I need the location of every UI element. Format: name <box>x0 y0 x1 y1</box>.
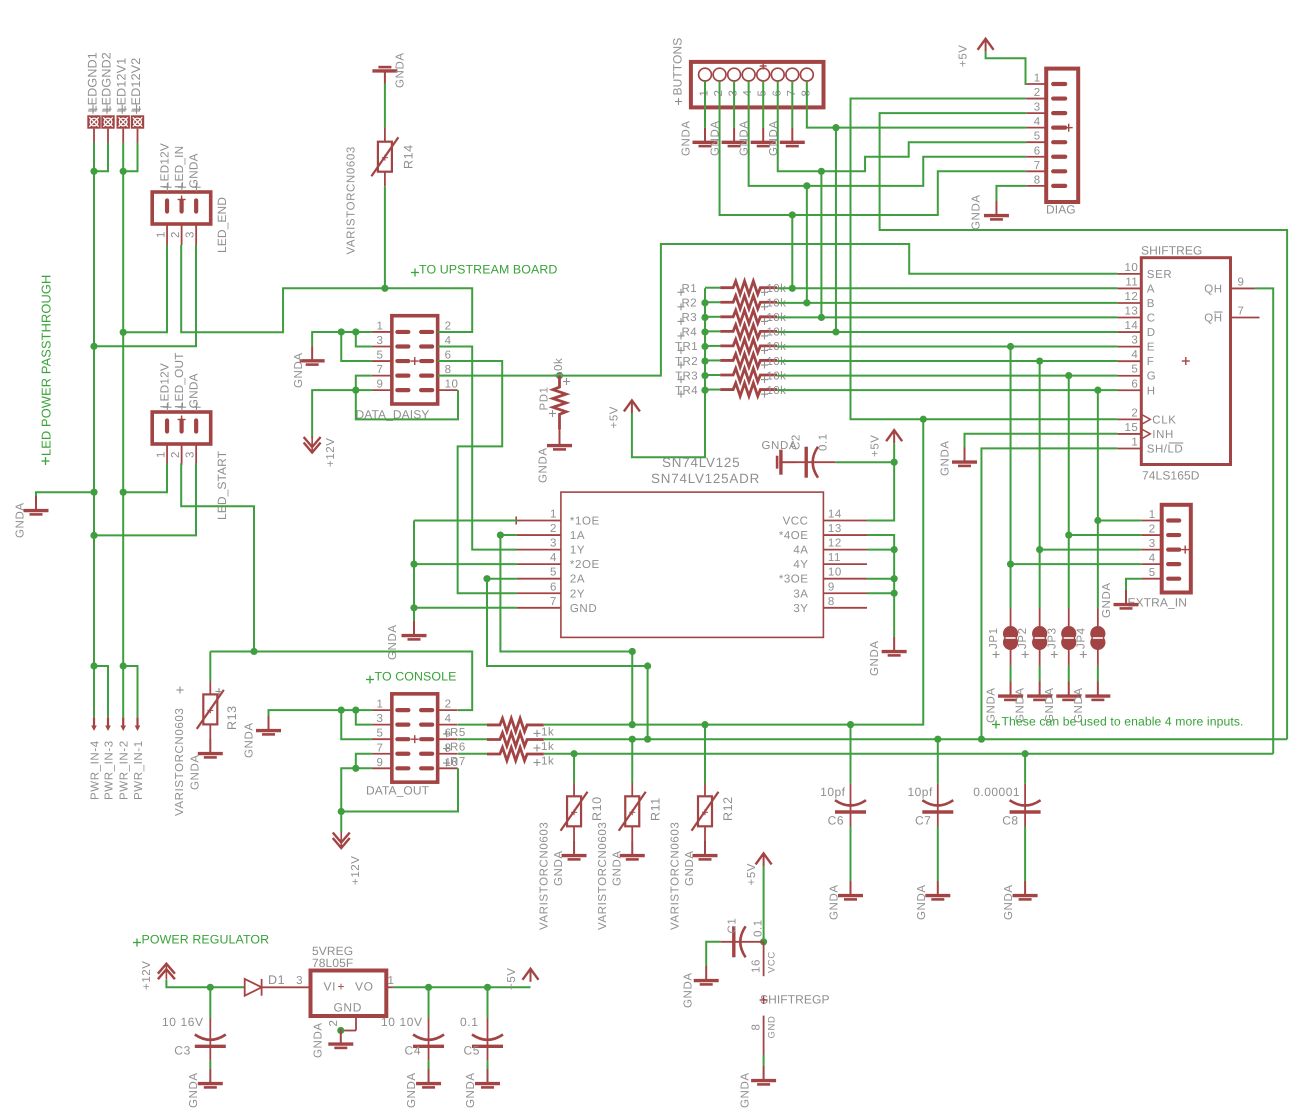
capacitor C5 0.1 <box>472 1018 503 1061</box>
wire DATA_DAISY pin4 to 1Y <box>438 347 517 550</box>
svg-text:9: 9 <box>828 581 835 593</box>
wire GNDA branch to DATA_DAISY pin5 <box>341 332 372 361</box>
ground GNDA (left rail) <box>24 496 49 514</box>
origin cross JP2 <box>1022 654 1029 656</box>
wire EXTRA_IN pin5 to GNDA <box>1126 579 1141 590</box>
svg-text:5: 5 <box>1149 567 1156 579</box>
wire R12 top wire <box>704 725 706 783</box>
origin cross GNDA <box>192 186 200 188</box>
capacitor C4 10 10V <box>413 1018 444 1061</box>
capacitor C2 <box>796 447 836 478</box>
svg-text:*1OE: *1OE <box>570 516 600 528</box>
svg-text:6: 6 <box>445 350 452 362</box>
svg-text:INH: INH <box>1152 429 1174 441</box>
wire extra3 wire <box>1036 546 1141 553</box>
origin cross VARISTORCN0603 (R13) <box>177 689 184 691</box>
svg-text:GNDA: GNDA <box>244 722 256 758</box>
wire stub bus to R3 <box>705 316 720 318</box>
svg-text:GNDA: GNDA <box>829 884 841 920</box>
svg-text:7: 7 <box>1034 160 1041 172</box>
svg-text:13: 13 <box>1125 306 1139 318</box>
svg-text:GNDA: GNDA <box>971 194 983 230</box>
capacitor C1 0.1 <box>721 926 764 957</box>
ground GNDA (DIAG pin8) <box>984 201 1009 219</box>
svg-text:GND: GND <box>334 1001 362 1015</box>
svg-text:5: 5 <box>376 728 383 740</box>
svg-text:1: 1 <box>376 320 383 332</box>
svg-text:7: 7 <box>550 596 557 608</box>
svg-text:10: 10 <box>1125 262 1139 274</box>
svg-text:3: 3 <box>1131 335 1138 347</box>
wire JP4 to ground <box>1097 666 1099 682</box>
wire VCC wire to +5V <box>867 462 894 520</box>
wire stub bus to TR4 <box>705 389 720 391</box>
svg-text:LED12V2: LED12V2 <box>129 58 143 113</box>
wire row H net (TR4/extra1) <box>777 387 1118 394</box>
svg-text:GNDA: GNDA <box>538 447 550 483</box>
ground GNDA (JP1) <box>998 682 1023 700</box>
supply +12V (DATA_DAISY) <box>304 437 321 453</box>
svg-text:GNDA: GNDA <box>916 884 928 920</box>
svg-text:6: 6 <box>1034 145 1041 157</box>
origin cross LED12V1 <box>118 108 127 110</box>
svg-text:10k: 10k <box>553 358 565 378</box>
SHIFTREGP pin 8 GND <box>763 1016 765 1055</box>
wire 3OE stub <box>867 578 894 580</box>
svg-text:D: D <box>1147 327 1156 339</box>
svg-text:2: 2 <box>1131 407 1138 419</box>
resistor R1 10k <box>720 281 777 294</box>
svg-text:LED12V1: LED12V1 <box>115 58 129 113</box>
svg-text:GNDA: GNDA <box>187 373 201 408</box>
wire GNDA to DATA_DAISY pin1 <box>312 328 372 346</box>
wire JP2 to ground <box>1039 666 1041 682</box>
svg-text:R6: R6 <box>450 741 466 753</box>
svg-text:SHIFTREG: SHIFTREG <box>1141 244 1202 258</box>
supply +12V (regulator input) <box>158 964 175 980</box>
svg-text:10: 10 <box>828 567 842 579</box>
wire row D net (R4/button8) <box>777 328 1118 335</box>
svg-text:2A: 2A <box>570 574 585 586</box>
svg-text:POWER REGULATOR: POWER REGULATOR <box>142 933 270 947</box>
origin cross JP1 <box>993 654 1000 656</box>
svg-text:GND: GND <box>570 603 597 615</box>
origin cross SHIFTREGP (red) <box>760 999 768 1001</box>
wire 12V rail to diode <box>166 980 244 991</box>
wire C7 bottom wire <box>937 827 939 882</box>
svg-text:+12V: +12V <box>350 855 362 885</box>
svg-text:C4: C4 <box>405 1044 422 1058</box>
ground GNDA (JP4) <box>1085 682 1110 700</box>
svg-text:+5V: +5V <box>746 863 758 886</box>
regulator pin 2 line <box>344 1016 356 1031</box>
origin cross LED_OUT <box>178 406 186 408</box>
svg-text:R11: R11 <box>648 797 662 821</box>
svg-text:PWR_IN-4: PWR_IN-4 <box>89 740 101 800</box>
capacitor C7 10pf <box>922 784 953 827</box>
svg-text:GNDA: GNDA <box>406 1072 418 1108</box>
wire GNDA branch to DATA_DAISY pin3 <box>356 332 372 347</box>
origin cross R6 value <box>534 747 541 749</box>
svg-text:GNDA: GNDA <box>188 1072 200 1108</box>
origin cross JP3 <box>1051 654 1058 656</box>
wire BUTTONS pin8 to DIAG4 <box>807 81 1026 131</box>
svg-text:2: 2 <box>445 699 452 711</box>
resistor TR3 10k <box>720 368 777 381</box>
svg-text:+5V: +5V <box>506 967 518 990</box>
svg-text:TR1: TR1 <box>675 341 698 353</box>
ground GNDA (BUTTONS x=763.2) <box>751 128 776 146</box>
svg-text:2Y: 2Y <box>570 588 585 600</box>
wire SH/LD net down <box>981 448 1117 739</box>
wire C4 bottom wire <box>428 1061 430 1069</box>
svg-text:VARISTORCN0603: VARISTORCN0603 <box>346 146 358 254</box>
svg-text:7: 7 <box>376 742 383 754</box>
svg-text:0.1: 0.1 <box>460 1015 478 1029</box>
svg-text:4Y: 4Y <box>793 559 808 571</box>
svg-text:1: 1 <box>155 451 167 458</box>
varistor R12 <box>692 783 719 841</box>
svg-text:5: 5 <box>550 567 557 579</box>
pad LEDGND1 <box>87 115 100 142</box>
wire extra2 wire <box>1065 531 1141 538</box>
wire row F net (TR2/extra3) <box>777 357 1118 364</box>
svg-text:JP1: JP1 <box>988 627 1000 649</box>
wire C3 top wire <box>209 987 211 1018</box>
resistor TR2 10k <box>720 354 777 367</box>
connector DATA_OUT <box>372 694 458 782</box>
wire LED_IN from LED_END pin2 <box>181 245 472 332</box>
svg-text:1k: 1k <box>541 756 554 768</box>
svg-text:GNDA: GNDA <box>986 687 998 723</box>
origin cross R4 <box>678 335 685 337</box>
svg-text:74LS165D: 74LS165D <box>1142 469 1200 483</box>
svg-text:10pf: 10pf <box>907 785 933 799</box>
svg-text:GNDA: GNDA <box>395 52 407 88</box>
wire 1A branch down <box>497 531 636 724</box>
ground GNDA (U125 right) <box>882 637 907 655</box>
svg-text:10 10V: 10 10V <box>381 1015 423 1029</box>
varistor R14 <box>371 127 398 186</box>
connector DATA_DAISY <box>372 316 458 404</box>
svg-text:3: 3 <box>184 231 196 238</box>
svg-text:C2: C2 <box>791 434 803 450</box>
svg-text:SH/LD: SH/LD <box>1147 443 1183 455</box>
origin cross R3 <box>678 320 685 322</box>
wire INH to GNDA <box>965 434 1118 448</box>
svg-text:GNDA: GNDA <box>187 153 201 188</box>
origin cross R4 value <box>761 335 768 337</box>
svg-text:2: 2 <box>550 523 557 535</box>
wire C3 bottom wire <box>209 1061 211 1069</box>
connector EXTRA_IN <box>1141 505 1190 593</box>
wire C6 top wire <box>850 725 852 784</box>
origin cross TR4 <box>678 393 685 395</box>
wire OE tie-down vertical <box>410 521 417 622</box>
supply +5V (U125 VCC) <box>886 430 902 443</box>
svg-text:8: 8 <box>445 364 452 376</box>
origin cross LEDGND2 <box>103 108 112 110</box>
supply +12V (DATA_OUT) <box>333 832 350 848</box>
svg-text:2: 2 <box>170 231 182 238</box>
wire 2A branch down <box>483 575 651 739</box>
wire BUTTONS pin wire x=705.0 <box>704 81 706 128</box>
IC VR1 box (78L05F) <box>311 971 387 1017</box>
wire stub bus to TR2 <box>705 359 720 361</box>
connector DIAG <box>1026 69 1078 202</box>
wire stub bus to R1 <box>705 287 720 289</box>
wire R5 row stub <box>458 724 487 726</box>
svg-text:GNDA: GNDA <box>684 850 696 886</box>
origin cross POWER REGULATOR <box>133 942 141 944</box>
wire 12V branch to PWR_IN-1 <box>123 666 137 717</box>
svg-text:SER: SER <box>1147 269 1172 281</box>
wire GNDA branch to PWR_IN-3 <box>94 666 108 717</box>
svg-text:8: 8 <box>751 1024 763 1031</box>
wire R11 top wire <box>631 739 633 783</box>
svg-text:1Y: 1Y <box>570 545 585 557</box>
svg-text:10 16V: 10 16V <box>162 1015 204 1029</box>
wire C7 top wire <box>937 739 939 783</box>
svg-text:10pf: 10pf <box>820 785 846 799</box>
svg-text:5: 5 <box>1131 364 1138 376</box>
capacitor C6 10pf <box>835 784 866 827</box>
pin PWR_IN-2 <box>120 717 126 731</box>
SHIFTREGP pin 16 VCC <box>763 942 765 976</box>
resistor TR4 10k <box>720 383 777 396</box>
svg-text:3: 3 <box>1149 538 1156 550</box>
wire C8 top wire <box>1024 754 1026 784</box>
ground GNDA (JP2) <box>1027 682 1052 700</box>
origin cross R6 <box>443 747 450 749</box>
origin cross TR1 <box>678 350 685 352</box>
svg-text:R7: R7 <box>450 756 466 768</box>
ground GNDA (C7) <box>925 881 950 899</box>
resistor PD1 <box>553 376 566 431</box>
svg-text:16: 16 <box>751 959 763 973</box>
wire C2 to +5V <box>835 461 894 463</box>
svg-text:C8: C8 <box>1002 814 1018 828</box>
svg-text:C1: C1 <box>727 918 739 934</box>
wire regulator GND wire <box>337 1027 344 1034</box>
svg-text:6: 6 <box>550 581 557 593</box>
svg-text:3: 3 <box>184 451 196 458</box>
origin cross TR4 value <box>761 393 768 395</box>
svg-text:PWR_IN-2: PWR_IN-2 <box>119 740 131 800</box>
svg-text:GNDA: GNDA <box>313 1022 325 1058</box>
wire GNDA to DATA_OUT pin1 <box>269 707 372 717</box>
svg-text:VCC: VCC <box>767 951 778 973</box>
jumper JP4 <box>1090 609 1105 666</box>
svg-text:+5V: +5V <box>609 406 621 429</box>
svg-text:6: 6 <box>1131 378 1138 390</box>
svg-text:SN74LV125: SN74LV125 <box>662 455 740 470</box>
jumper JP3 <box>1061 609 1076 666</box>
D1 to regulator pin 3 <box>262 986 311 988</box>
svg-text:1k: 1k <box>541 741 554 753</box>
wire DIAG pin2 to CLK <box>851 99 1118 423</box>
wire C5 top wire <box>487 987 489 1018</box>
ground GNDA (U125 GND) <box>402 621 427 639</box>
svg-text:+12V: +12V <box>141 960 153 990</box>
svg-text:*4OE: *4OE <box>779 530 809 542</box>
wire BUTTONS pin wire x=792.3 <box>791 81 793 128</box>
svg-text:VARISTORCN0603: VARISTORCN0603 <box>174 708 186 816</box>
wire U125 GND pin wire <box>414 607 517 609</box>
svg-text:13: 13 <box>828 523 842 535</box>
svg-text:C3: C3 <box>174 1044 191 1058</box>
svg-text:CLK: CLK <box>1152 414 1176 426</box>
svg-text:PWR_IN-3: PWR_IN-3 <box>103 740 115 800</box>
svg-text:SHIFTREGP: SHIFTREGP <box>760 993 830 1007</box>
wire SHIFTREGP GND wire <box>763 1055 765 1066</box>
svg-text:3A: 3A <box>793 588 808 600</box>
origin cross BUTTONS name <box>675 101 682 103</box>
svg-text:GNDA: GNDA <box>190 754 202 790</box>
wire stub bus to TR1 <box>705 345 720 347</box>
wire console pin2 net (R13/LED_OUT) <box>210 648 472 710</box>
wire jumper column E <box>1010 347 1012 609</box>
wire BUTTONS pin4 to DIAG6 <box>749 81 1027 189</box>
svg-text:4: 4 <box>1149 553 1156 565</box>
wire LEDGND2 jog into LEDGND1 <box>94 143 108 172</box>
svg-text:5: 5 <box>1034 131 1041 143</box>
svg-text:DATA_OUT: DATA_OUT <box>366 783 430 797</box>
svg-text:LED_OUT: LED_OUT <box>172 352 186 408</box>
svg-text:JP2: JP2 <box>1017 627 1029 649</box>
origin cross R1 value <box>761 291 768 293</box>
svg-text:These can be used to enable 4: These can be used to enable 4 more input… <box>1002 715 1244 729</box>
svg-text:VO: VO <box>355 980 374 994</box>
origin cross R7 <box>443 762 450 764</box>
svg-text:4: 4 <box>1131 349 1138 361</box>
ground GNDA (C6) <box>838 881 863 899</box>
IC U-125 box (SN74LV125) <box>516 492 867 637</box>
wire DATA_DAISY pin2 to upstream 12V/LED_IN riser <box>438 331 473 333</box>
svg-text:11: 11 <box>828 552 841 564</box>
svg-text:R13: R13 <box>225 705 239 730</box>
ground GNDA (C8) <box>1013 881 1038 899</box>
svg-text:4A: 4A <box>793 545 808 557</box>
svg-text:LED_START: LED_START <box>215 450 229 520</box>
svg-text:E: E <box>1147 342 1155 354</box>
pin PWR_IN-3 <box>105 717 111 731</box>
origin cross R5 <box>443 733 450 735</box>
svg-text:7: 7 <box>376 364 383 376</box>
connector BUTTONS <box>691 62 824 108</box>
wire BUTTONS pin2 to DIAG7 <box>720 81 1027 219</box>
wire GNDA wire to left ground <box>36 492 94 496</box>
origin cross PD1 value <box>563 381 570 383</box>
origin cross PD1 <box>549 413 556 415</box>
wire R5/CLK row <box>544 419 923 728</box>
wire C8 bottom wire <box>1024 827 1026 882</box>
wire R14 top wire <box>384 84 386 128</box>
ground GNDA (R10) <box>562 841 587 859</box>
svg-text:GND: GND <box>767 1016 778 1039</box>
wire +5V to SHIFTREGP VCC <box>760 866 767 945</box>
ground GNDA (JP3) <box>1056 682 1081 700</box>
origin cross LED12V2 <box>132 108 141 110</box>
wire 1A net stub <box>500 534 517 536</box>
svg-text:11: 11 <box>1125 276 1138 288</box>
pad LED12V1 <box>117 115 130 142</box>
svg-text:1: 1 <box>155 231 167 238</box>
origin cross LEDGND1 <box>89 108 98 110</box>
diode D1 <box>245 979 262 996</box>
svg-text:+: + <box>338 980 346 994</box>
wire BUTTONS pin6 to DIAG5 <box>778 81 1026 175</box>
svg-text:12: 12 <box>1125 291 1139 303</box>
svg-text:GNDA: GNDA <box>683 972 695 1008</box>
capacitor C8 0.00001 <box>1010 784 1041 827</box>
origin cross R3 value <box>761 320 768 322</box>
ground GNDA (regulator) <box>328 1030 353 1048</box>
wire +5V bus for pull-up resistors <box>632 288 709 457</box>
svg-text:3: 3 <box>1034 102 1041 114</box>
resistor R2 10k <box>720 296 777 309</box>
wire column button2 to row A <box>791 215 793 288</box>
origin cross R5 value <box>534 732 541 734</box>
svg-text:3: 3 <box>296 975 303 987</box>
svg-text:GNDA: GNDA <box>1003 884 1015 920</box>
svg-text:+12V: +12V <box>325 437 337 467</box>
svg-text:QH: QH <box>1204 313 1222 325</box>
svg-text:GNDA: GNDA <box>740 1072 752 1108</box>
wire 2A net stub <box>487 578 517 580</box>
svg-text:R10: R10 <box>590 796 604 821</box>
resistor R6 1k <box>487 733 544 746</box>
svg-text:LED_END: LED_END <box>215 197 229 253</box>
connector LED_END <box>152 192 211 245</box>
origin cross LED_IN <box>178 186 186 188</box>
resistor R5 1k <box>487 718 544 731</box>
svg-text:EXTRA_IN: EXTRA_IN <box>1128 596 1187 610</box>
wire BUTTONS pin wire x=734.1 <box>733 81 735 128</box>
origin cross LED12V <box>163 186 171 188</box>
svg-text:GNDA: GNDA <box>553 850 565 886</box>
origin cross TR2 value <box>761 364 768 366</box>
ground GNDA (BUTTONS x=705.0) <box>693 128 718 146</box>
svg-text:LEDGND1: LEDGND1 <box>86 52 100 112</box>
ground GNDA (C5) <box>475 1069 500 1087</box>
ground GNDA (SHIFTREGP) <box>751 1066 776 1084</box>
wire 3A stub <box>867 592 894 594</box>
svg-text:R5: R5 <box>450 727 466 739</box>
svg-text:2: 2 <box>170 451 182 458</box>
ground GNDA (C1) <box>694 966 719 984</box>
svg-text:TO UPSTREAM BOARD: TO UPSTREAM BOARD <box>419 263 557 277</box>
origin cross TR1 value <box>761 350 768 352</box>
svg-text:14: 14 <box>1125 320 1139 332</box>
svg-text:+5V: +5V <box>958 44 970 67</box>
ground GNDA (C3) <box>198 1069 223 1087</box>
wire OE tie-down net <box>414 520 517 522</box>
wire +12V DATA_OUT pin9 row <box>341 765 372 812</box>
wire 4A stub <box>867 549 894 551</box>
svg-text:SN74LV125ADR: SN74LV125ADR <box>651 471 760 486</box>
ground GNDA (DATA_OUT) <box>256 716 281 734</box>
jumper JP2 <box>1032 609 1047 666</box>
op-amp U-SHIFTREG box (74LS165D) <box>1118 258 1260 465</box>
jumper JP1 <box>1003 609 1018 666</box>
svg-text:4: 4 <box>550 552 557 564</box>
svg-text:2: 2 <box>445 320 452 332</box>
ground GNDA (C2) <box>777 450 795 475</box>
origin cross TO UPSTREAM BOARD <box>411 272 419 274</box>
ground GNDA (INH) <box>952 448 977 466</box>
svg-text:1: 1 <box>376 699 383 711</box>
